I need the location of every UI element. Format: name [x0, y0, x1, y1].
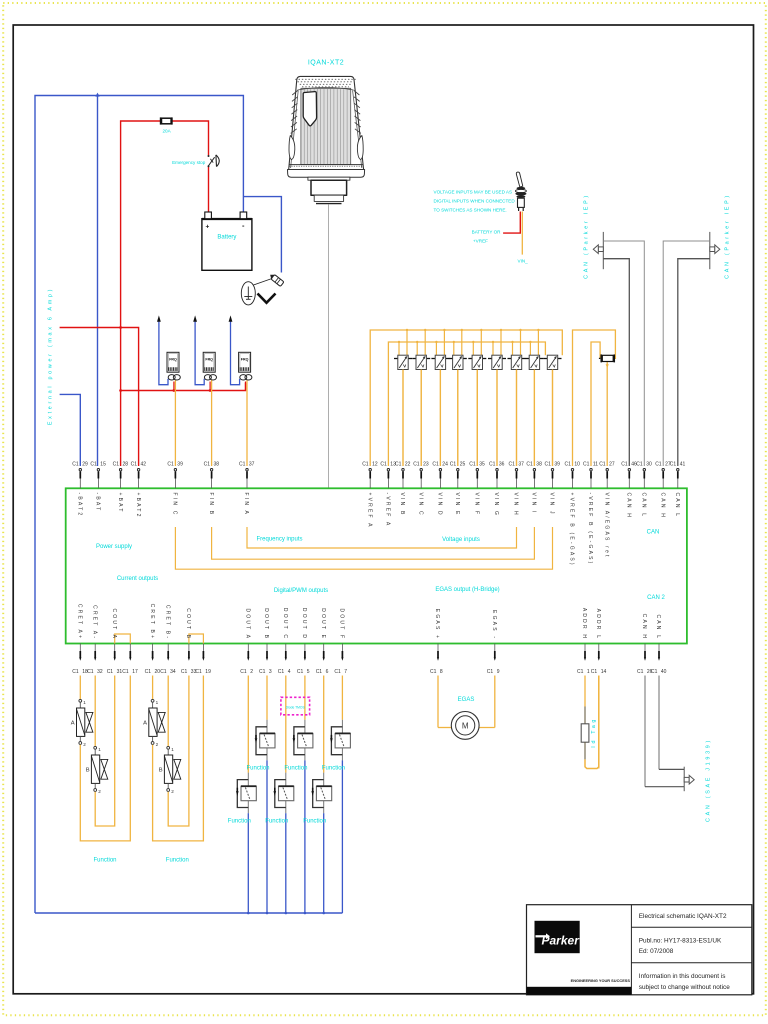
svg-text:C1: C1: [599, 461, 606, 467]
solenoid function block DOUT at x=267.0 row 0: [246, 720, 275, 913]
pin C1/37 (FIN A) top row: [239, 461, 255, 516]
svg-text:C1: C1: [651, 669, 658, 675]
svg-text:Function: Function: [303, 819, 326, 825]
pin C1/8 (EGAS +) bottom row: [430, 609, 443, 728]
pin C1/1 (ADDR H) bottom row: [577, 608, 590, 707]
pin C1/3 (DOUT B) bottom row: [259, 608, 272, 720]
svg-text:C1: C1: [131, 461, 138, 467]
svg-text:C1: C1: [113, 461, 120, 467]
pin C1/32 (CRET A-) bottom row: [87, 605, 103, 747]
svg-text:VIN E: VIN E: [454, 493, 460, 517]
svg-text:EGAS: EGAS: [458, 697, 475, 703]
svg-text:20A: 20A: [163, 129, 172, 134]
valve A solenoid at x=152.6: [143, 699, 165, 747]
svg-text:1: 1: [98, 747, 101, 752]
valve B solenoid at x=95.2: [86, 746, 108, 794]
svg-text:Diode TMOS: Diode TMOS: [286, 705, 306, 709]
svg-text:37: 37: [249, 461, 255, 467]
wire: blue return bus: [35, 912, 342, 914]
svg-text:9: 9: [497, 669, 500, 675]
wire: orange COUT A pin bridge: [115, 634, 131, 644]
svg-text:M: M: [462, 722, 469, 731]
svg-text:C1: C1: [564, 461, 571, 467]
svg-text:23: 23: [423, 461, 429, 467]
pin C1/39 (FIN C) top row: [167, 461, 183, 516]
svg-text:C1: C1: [167, 461, 174, 467]
svg-text:2: 2: [98, 789, 101, 794]
svg-text:-VREF B (E-GAS): -VREF B (E-GAS): [587, 493, 593, 566]
wire: orange +VREF A bus: [370, 330, 562, 466]
svg-text:29: 29: [82, 461, 88, 467]
svg-text:35: 35: [479, 461, 485, 467]
wire: orange valve B return loop: [95, 676, 115, 827]
svg-text:A: A: [143, 721, 147, 727]
svg-text:VIN G: VIN G: [493, 493, 499, 518]
pin C1/4 (DOUT C) bottom row: [278, 608, 291, 773]
svg-text:C1: C1: [577, 669, 584, 675]
svg-text:CAN (Parker IEP): CAN (Parker IEP): [584, 193, 590, 279]
potentiometer VIN at pin x=516.5: [508, 329, 526, 466]
svg-text:C1: C1: [204, 461, 211, 467]
IQAN-XT2 connection block (green box): [66, 488, 687, 643]
pin C1/27 (VIN A/EGAS ret) top row: [599, 461, 615, 558]
svg-text:2: 2: [250, 669, 253, 675]
pin C1/27 (CAN H) top row: [655, 461, 671, 519]
svg-text:VIN C: VIN C: [417, 493, 423, 517]
pin C1/41 (CAN L) top row: [670, 461, 686, 518]
svg-text:19: 19: [205, 669, 211, 675]
wire: blue battery minus to chassis ground: [243, 197, 281, 273]
svg-text:Function: Function: [265, 819, 288, 825]
svg-text:5: 5: [307, 669, 310, 675]
svg-text:38: 38: [536, 461, 542, 467]
svg-text:1: 1: [171, 747, 174, 752]
potentiometer VIN at pin x=552.5: [544, 355, 562, 466]
svg-text:C1: C1: [240, 669, 247, 675]
wire: orange COUT B pin bridge: [189, 634, 204, 644]
svg-text:External power (max 6 Amp): External power (max 6 Amp): [48, 287, 54, 425]
wire: red battery feed to switch: [503, 212, 520, 234]
svg-text:EGAS -: EGAS -: [491, 610, 497, 640]
svg-text:Function: Function: [284, 766, 307, 772]
svg-text:EGAS output (H-Bridge): EGAS output (H-Bridge): [435, 587, 499, 593]
svg-text:C1: C1: [259, 669, 266, 675]
svg-text:TO SWITCHES AS SHOWN HERE.: TO SWITCHES AS SHOWN HERE.: [434, 208, 507, 213]
svg-text:+VREF A: +VREF A: [366, 493, 372, 529]
svg-text:B: B: [86, 768, 90, 774]
svg-text:Function: Function: [246, 766, 269, 772]
svg-text:40: 40: [661, 669, 667, 675]
svg-text:C1: C1: [621, 461, 628, 467]
connector: CAN (Parker IEP) left: [593, 232, 644, 466]
svg-text:subject to change without noti: subject to change without notice: [639, 984, 730, 991]
svg-text:37: 37: [518, 461, 524, 467]
wire: red +BAT2 external power stub to pin C1/42: [60, 328, 139, 467]
svg-text:32: 32: [97, 669, 103, 675]
svg-text:C1: C1: [487, 669, 494, 675]
wire: blue -BAT top bus: [35, 96, 243, 914]
svg-text:Publ.no: HY17-8313-ES1/UK: Publ.no: HY17-8313-ES1/UK: [639, 937, 722, 944]
svg-text:B: B: [159, 768, 163, 774]
sensor FRQ at pin x=175.4: [157, 315, 180, 466]
svg-text:FRQ: FRQ: [169, 358, 177, 362]
svg-text:C1: C1: [380, 461, 387, 467]
switch: emergency stop: [172, 155, 219, 167]
wire: blue external power stub to pin C1/29: [60, 394, 81, 466]
svg-text:DOUT F: DOUT F: [339, 608, 345, 640]
pin C1/46 (CAN H) top row: [621, 461, 637, 519]
svg-text:VOLTAGE INPUTS MAY BE USED AS: VOLTAGE INPUTS MAY BE USED AS: [434, 189, 513, 194]
svg-text:C1: C1: [489, 461, 496, 467]
svg-text:C1: C1: [87, 669, 94, 675]
svg-text:14: 14: [601, 669, 607, 675]
svg-text:-BAT2: -BAT2: [77, 493, 83, 518]
svg-text:28: 28: [123, 461, 129, 467]
svg-text:Voltage inputs: Voltage inputs: [442, 537, 480, 543]
svg-text:COUT B: COUT B: [185, 608, 191, 640]
pin C1/36 (VIN G) top row: [489, 370, 505, 518]
svg-text:-VREF A: -VREF A: [385, 493, 391, 528]
svg-text:DOUT E: DOUT E: [320, 608, 326, 640]
potentiometer VIN at pin x=421.2: [412, 329, 430, 466]
pin C1/7 (DOUT F) bottom row: [334, 608, 347, 719]
svg-text:Function: Function: [322, 766, 345, 772]
svg-text:CAN L: CAN L: [674, 493, 680, 519]
svg-text:C1: C1: [670, 461, 677, 467]
svg-text:VIN I: VIN I: [531, 493, 537, 515]
svg-text:+BAT2: +BAT2: [135, 493, 141, 519]
svg-text:C1: C1: [450, 461, 457, 467]
svg-text:38: 38: [214, 461, 220, 467]
svg-text:Battery: Battery: [217, 235, 236, 241]
svg-text:39: 39: [554, 461, 560, 467]
svg-text:A: A: [71, 721, 75, 727]
resistor: CAN/VREF termination: [573, 330, 616, 466]
potentiometer VIN at pin x=440.4: [431, 329, 449, 466]
svg-text:30: 30: [646, 461, 652, 467]
svg-text:CRET B-: CRET B-: [164, 605, 170, 640]
svg-text:C1: C1: [181, 669, 188, 675]
svg-text:1: 1: [587, 669, 590, 675]
svg-text:11: 11: [593, 461, 598, 467]
svg-text:C1: C1: [195, 669, 202, 675]
svg-text:VIN B: VIN B: [399, 493, 405, 517]
svg-text:FIN A: FIN A: [243, 493, 249, 517]
pin C1/22 (VIN B) top row: [395, 370, 411, 517]
svg-text:VIN J: VIN J: [549, 493, 555, 516]
pin C1/25 (VIN E) top row: [450, 370, 466, 517]
svg-text:12: 12: [372, 461, 378, 467]
connector: CAN (Parker IEP) right: [663, 232, 720, 466]
node: junction on -BAT bus: [95, 93, 99, 97]
svg-text:Ed: 07/2008: Ed: 07/2008: [639, 948, 674, 955]
svg-text:C1: C1: [469, 461, 476, 467]
pin C1/11 (-VREF B (E-GAS)) top row: [583, 461, 598, 565]
svg-text:C1: C1: [430, 669, 437, 675]
svg-text:Frequency inputs: Frequency inputs: [256, 537, 302, 543]
svg-text:C1: C1: [107, 669, 114, 675]
pin C1/35 (VIN F) top row: [469, 370, 485, 517]
connector: CAN (SAE J1939): [645, 767, 694, 792]
pin C1/39 (VIN J) top row: [544, 370, 560, 516]
svg-text:FIN B: FIN B: [208, 493, 214, 517]
svg-text:+VREF B (E-GAS): +VREF B (E-GAS): [569, 493, 575, 567]
svg-text:C1: C1: [636, 461, 643, 467]
svg-text:10: 10: [574, 461, 580, 467]
svg-text:+VREF: +VREF: [473, 239, 488, 244]
svg-text:17: 17: [132, 669, 138, 675]
svg-text:C1: C1: [90, 461, 97, 467]
wire: orange FIN A to VIN H internal route: [247, 527, 517, 548]
svg-text:DOUT B: DOUT B: [263, 608, 269, 640]
svg-text:15: 15: [100, 461, 106, 467]
svg-text:ADDR H: ADDR H: [581, 608, 587, 640]
svg-text:22: 22: [405, 461, 411, 467]
pin C1/2 (DOUT A) bottom row: [240, 608, 253, 772]
pin C1/40 (CAN L) bottom row: [651, 614, 667, 769]
pin C1/6 (DOUT E) bottom row: [316, 608, 329, 772]
wire: orange VIN from switch: [521, 212, 523, 255]
svg-text:C1: C1: [297, 669, 304, 675]
potentiometer VIN at pin x=403: [394, 329, 412, 466]
wire: orange FIN C to VIN J internal route: [175, 527, 552, 569]
svg-text:C1: C1: [526, 461, 533, 467]
svg-text:C1: C1: [544, 461, 551, 467]
pin C1/17 () bottom row: [122, 644, 138, 676]
svg-text:VIN A/EGAS ret: VIN A/EGAS ret: [603, 493, 609, 559]
svg-text:C1: C1: [395, 461, 402, 467]
potentiometer VIN at pin x=497: [488, 329, 506, 466]
svg-text:7: 7: [344, 669, 347, 675]
svg-text:EGAS +: EGAS +: [434, 609, 440, 640]
svg-text:IQAN-XT2: IQAN-XT2: [308, 60, 344, 67]
svg-text:FRQ: FRQ: [205, 358, 213, 362]
svg-text:BATTERY OR: BATTERY OR: [472, 230, 502, 235]
svg-text:27: 27: [609, 461, 615, 467]
pin C1/26 (CAN H) bottom row: [637, 614, 653, 787]
svg-text:CAN (Parker IEP): CAN (Parker IEP): [725, 193, 731, 279]
pin C1/14 (ADDR L) bottom row: [591, 609, 607, 769]
svg-text:C1: C1: [316, 669, 323, 675]
svg-text:VIN_: VIN_: [518, 259, 529, 264]
pin C1/10 (+VREF B (E-GAS)) top row: [564, 461, 580, 566]
svg-text:VIN D: VIN D: [437, 493, 443, 517]
svg-text:+BAT: +BAT: [117, 493, 123, 514]
pin C1/37 (VIN H) top row: [508, 370, 524, 517]
svg-text:42: 42: [141, 461, 147, 467]
sensor FRQ at pin x=247.0: [229, 315, 252, 466]
pin C1/15 (-BAT) top row: [90, 461, 106, 512]
wire: orange FIN B to VIN I internal route: [212, 527, 535, 559]
svg-text:Function: Function: [93, 858, 116, 864]
svg-text:4: 4: [288, 669, 291, 675]
pin C1/18 (CRET A+) bottom row: [72, 604, 88, 700]
valve B solenoid at x=168.2: [159, 746, 181, 794]
svg-text:COUT A: COUT A: [111, 608, 117, 640]
pin C1/38 (VIN I) top row: [526, 370, 542, 515]
svg-text:CAN 2: CAN 2: [647, 595, 665, 601]
svg-text:C1: C1: [413, 461, 420, 467]
svg-text:FIN C: FIN C: [172, 493, 178, 517]
pin C1/38 (FIN B) top row: [204, 461, 220, 516]
pin C1/34 (CRET B-) bottom row: [160, 605, 176, 747]
svg-text:24: 24: [442, 461, 448, 467]
svg-text:Current outputs: Current outputs: [117, 576, 158, 582]
bolt: [268, 272, 284, 286]
svg-text:C1: C1: [122, 669, 129, 675]
svg-text:Function: Function: [166, 858, 189, 864]
svg-text:C1: C1: [145, 669, 152, 675]
svg-text:DIGITAL INPUTS WHEN CONNECTED: DIGITAL INPUTS WHEN CONNECTED: [434, 198, 516, 203]
svg-text:CAN H: CAN H: [626, 493, 632, 520]
svg-text:FRQ: FRQ: [241, 358, 249, 362]
svg-text:DOUT D: DOUT D: [301, 608, 307, 640]
wire: red feed to frequency sensors: [121, 383, 246, 391]
svg-text:25: 25: [460, 461, 466, 467]
pin C1/30 (CAN L) top row: [636, 461, 652, 518]
pin C1/20 (CRET B+) bottom row: [145, 604, 161, 700]
svg-text:Information in this document i: Information in this document is: [639, 973, 726, 980]
svg-text:DOUT A: DOUT A: [245, 608, 251, 640]
fuse 20A: [161, 117, 172, 133]
solenoid function block DOUT at x=248.3 row 1: [228, 773, 257, 913]
potentiometer VIN at pin x=457.8: [449, 329, 467, 466]
pin C1/9 (EGAS -) bottom row: [487, 610, 500, 727]
svg-text:C1: C1: [72, 669, 79, 675]
svg-text:ADDR L: ADDR L: [595, 609, 601, 641]
pin C1/31 (COUT A) bottom row: [107, 608, 123, 675]
svg-text:CAN L: CAN L: [641, 493, 647, 519]
svg-text:41: 41: [680, 461, 686, 467]
valve A solenoid at x=80.3: [71, 699, 93, 747]
svg-text:Digital/PWM outputs: Digital/PWM outputs: [274, 588, 328, 594]
svg-text:CRET A+: CRET A+: [77, 604, 83, 640]
svg-text:Electrical schematic IQAN-XT2: Electrical schematic IQAN-XT2: [639, 913, 727, 920]
svg-text:1: 1: [83, 700, 86, 705]
sensor FRQ at pin x=211.6: [193, 315, 216, 466]
svg-text:ENGINEERING YOUR SUCCESS: ENGINEERING YOUR SUCCESS: [571, 978, 631, 983]
svg-text:C1: C1: [160, 669, 167, 675]
svg-text:CAN: CAN: [647, 530, 660, 536]
svg-text:2: 2: [83, 742, 86, 747]
pin C1/28 (+BAT) top row: [113, 461, 129, 513]
svg-text:8: 8: [440, 669, 443, 675]
svg-text:VIN H: VIN H: [513, 493, 519, 517]
svg-text:CAN H: CAN H: [641, 614, 647, 641]
svg-text:Function: Function: [228, 819, 251, 825]
svg-text:+: +: [206, 224, 210, 231]
svg-text:C1: C1: [239, 461, 246, 467]
potentiometer VIN at pin x=477.3: [468, 329, 486, 466]
svg-text:C1: C1: [637, 669, 644, 675]
Parker logo: [535, 921, 580, 953]
motor M (EGAS): [438, 697, 495, 739]
svg-text:3: 3: [269, 669, 272, 675]
pin C1/19 () bottom row: [195, 644, 211, 676]
svg-text:C1: C1: [432, 461, 439, 467]
svg-text:CRET B+: CRET B+: [149, 604, 155, 641]
svg-text:Emergency stop: Emergency stop: [172, 160, 206, 165]
switch: toggle example: [515, 172, 526, 211]
solenoid function block DOUT at x=285.8 row 1: [265, 773, 294, 913]
svg-text:C1: C1: [591, 669, 598, 675]
svg-text:-BAT: -BAT: [95, 493, 101, 513]
note: magenta dashed option box: [281, 697, 310, 715]
wire: orange -VREF A bus: [388, 342, 545, 466]
wire: orange valve B return loop: [168, 676, 189, 827]
svg-text:C1: C1: [655, 461, 662, 467]
ground: chassis clamp and earth symbol: [241, 272, 284, 304]
wire: orange valve A return loop: [80, 676, 130, 841]
battery: [202, 212, 252, 270]
pin C1/12 (+VREF A) top row: [362, 461, 378, 528]
pin C1/23 (VIN C) top row: [413, 370, 429, 517]
svg-text:VIN F: VIN F: [474, 493, 480, 517]
svg-text:C1: C1: [334, 669, 341, 675]
svg-text:C1: C1: [508, 461, 515, 467]
pin C1/33 (COUT B) bottom row: [181, 608, 197, 675]
pin C1/5 (DOUT D) bottom row: [297, 608, 310, 720]
svg-text:DOUT C: DOUT C: [282, 608, 288, 640]
wire: red +BAT from fuse to battery plus and pin C1/28: [121, 121, 209, 466]
solenoid function block DOUT at x=304.9 row 0: [284, 720, 313, 913]
wire: blue -BAT to pin C1/15: [97, 96, 99, 467]
svg-text:6: 6: [326, 669, 329, 675]
svg-text:CAN H: CAN H: [659, 493, 665, 520]
svg-text:2: 2: [171, 789, 174, 794]
svg-text:C1: C1: [72, 461, 79, 467]
wire: harness from module to connector: [328, 205, 330, 489]
pin C1/42 (+BAT2) top row: [131, 461, 147, 518]
pin C1/13 (-VREF A) top row: [380, 461, 396, 527]
solenoid function block DOUT at x=342.4 row 0: [322, 720, 351, 913]
solenoid function block DOUT at x=323.7 row 1: [303, 773, 332, 913]
svg-text:36: 36: [499, 461, 505, 467]
svg-text:CAN L: CAN L: [655, 614, 661, 640]
IQAN-XT2 module illustration: [288, 60, 365, 204]
resistor: Id Tag: [581, 676, 599, 769]
svg-text:39: 39: [177, 461, 183, 467]
svg-text:2: 2: [156, 742, 159, 747]
svg-text:C1: C1: [278, 669, 285, 675]
svg-text:Id Tag: Id Tag: [591, 717, 597, 748]
svg-text:C1: C1: [362, 461, 369, 467]
wire: orange valve A return loop: [153, 676, 204, 841]
pin C1/29 (-BAT2) top row: [72, 461, 88, 517]
title block: [527, 905, 752, 995]
svg-text:CAN (SAE J1939): CAN (SAE J1939): [706, 738, 712, 822]
svg-text:CRET A-: CRET A-: [91, 605, 97, 640]
pin C1/24 (VIN D) top row: [432, 370, 448, 517]
potentiometer VIN at pin x=534.4: [525, 329, 543, 466]
svg-text:Power supply: Power supply: [96, 544, 132, 550]
svg-text:1: 1: [156, 700, 159, 705]
svg-text:C1: C1: [583, 461, 590, 467]
svg-text:34: 34: [170, 669, 176, 675]
